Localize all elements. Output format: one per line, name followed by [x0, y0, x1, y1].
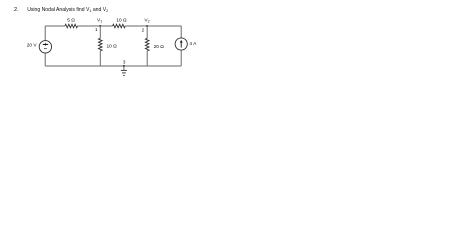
wire: right branch upper segment — [180, 26, 182, 38]
svg-text:10 Ω: 10 Ω — [116, 17, 127, 23]
label node number 1 — [95, 27, 98, 32]
svg-text:4 A: 4 A — [189, 41, 197, 47]
wire: top wire from 10-ohm to node 2 — [125, 25, 147, 27]
current source 4 A (circle with up arrow) — [175, 38, 187, 50]
wire: left branch lower segment — [44, 53, 46, 66]
wire: branch 1 lower segment — [99, 51, 101, 66]
label node number 3 — [123, 59, 126, 64]
wire: top wire from 5-ohm to node 1 — [78, 25, 101, 27]
label node number 2 — [142, 27, 145, 32]
resistor 10 ohm (top middle, horizontal) — [113, 24, 126, 28]
wire: branch 1 upper segment (node 1 down to 10-ohm) — [99, 26, 101, 38]
wire: left branch upper segment — [44, 26, 46, 41]
resistor 20 ohm (vertical, below node 2) — [145, 38, 149, 51]
label 10 ohm value (horizontal resistor) — [116, 17, 127, 23]
label 4 A value — [189, 41, 197, 47]
svg-text:20 Ω: 20 Ω — [154, 44, 165, 50]
wire: top wire left segment (left corner to 5-ohm resistor) — [45, 25, 65, 27]
wire: top wire from node 1 to 10-ohm resistor — [100, 25, 112, 27]
svg-text:1: 1 — [95, 27, 98, 32]
label 10 ohm value (vertical resistor) — [107, 43, 118, 49]
resistor 5 ohm (top left, horizontal) — [65, 24, 78, 28]
problem statement text — [14, 7, 109, 13]
resistor 10 ohm (vertical, below node 1) — [99, 38, 103, 51]
label 20 ohm value — [154, 44, 165, 50]
svg-text:20 V: 20 V — [27, 43, 38, 49]
svg-text:10 Ω: 10 Ω — [107, 43, 118, 49]
svg-text:2: 2 — [142, 27, 145, 32]
wire: top wire from node 2 to top-right corner — [147, 25, 181, 27]
node V2 junction dot — [146, 25, 148, 27]
label V2 — [144, 18, 149, 24]
ground — [121, 66, 127, 75]
label V1 — [97, 18, 102, 24]
wire: bottom wire — [45, 65, 181, 67]
node 3 junction dot (ground node on bottom wire) — [123, 65, 125, 67]
label 20 V value — [27, 43, 38, 49]
wire: right branch lower segment — [180, 50, 182, 66]
label 5 ohm value — [67, 17, 75, 23]
svg-text:5 Ω: 5 Ω — [67, 17, 75, 23]
svg-text:Using Nodal Analysis find V1 a: Using Nodal Analysis find V1 and V2 — [27, 7, 109, 13]
wire: branch 2 upper segment (node 2 down to 20-ohm) — [146, 26, 148, 38]
node V1 junction dot — [99, 25, 101, 27]
voltage source 20 V (circle with plus minus) — [39, 41, 51, 53]
wire: branch 2 lower segment — [146, 51, 148, 66]
svg-text:3: 3 — [123, 59, 126, 64]
svg-text:2.: 2. — [14, 7, 19, 13]
